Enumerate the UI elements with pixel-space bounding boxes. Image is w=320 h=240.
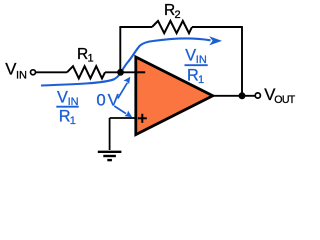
op-amp inverting input minus symbol	[137, 71, 145, 73]
node: inverting input junction dot	[117, 69, 124, 76]
wire: feedback vertical left	[119, 27, 121, 72]
annotation: 0 V text	[96, 91, 119, 110]
resistor R2	[152, 21, 192, 33]
annotation: blue fraction VIN/R1 (right)	[185, 46, 208, 86]
annotation: blue fraction VIN/R1 (left)	[56, 88, 78, 127]
annotation: arrow 0V to non-inverting input	[114, 106, 126, 114]
annotation: blue current arrowhead	[209, 36, 222, 45]
label R1	[77, 46, 94, 65]
annotation: arrow 0V to inverting input	[118, 83, 128, 99]
annotation: blue current flow curve with arrow	[41, 38, 211, 85]
svg-text:2: 2	[175, 9, 181, 21]
wire: feedback top right segment	[192, 26, 242, 28]
wire: input terminal to R1	[36, 71, 67, 73]
svg-text:OUT: OUT	[274, 94, 295, 106]
wire: feedback vertical right	[241, 26, 243, 96]
label VIN	[5, 59, 27, 81]
svg-text:IN: IN	[16, 69, 27, 81]
svg-text:V: V	[57, 88, 68, 106]
wire: non-inverting input down to ground	[109, 118, 111, 150]
op-amp non-inverting input plus symbol	[138, 114, 147, 123]
wire: feedback top left segment	[119, 26, 152, 28]
op-amp U1	[136, 57, 213, 135]
svg-text:1: 1	[70, 115, 76, 127]
label R2	[164, 2, 181, 21]
svg-text:V: V	[108, 91, 120, 110]
ground	[98, 152, 122, 160]
wire: non-inverting input horizontal	[110, 117, 137, 119]
wire: R1 to op-amp inverting input	[105, 71, 137, 73]
node: output junction dot	[239, 92, 246, 99]
wire: op-amp output	[213, 95, 255, 97]
svg-text:R: R	[187, 66, 199, 84]
svg-text:1: 1	[198, 74, 204, 86]
label VOUT	[264, 85, 296, 106]
svg-text:V: V	[185, 46, 196, 64]
svg-text:0: 0	[96, 91, 105, 110]
svg-text:IN: IN	[196, 54, 207, 66]
input terminal (open circle)	[31, 70, 36, 75]
resistor R1	[67, 66, 105, 78]
output terminal (open circle)	[255, 93, 260, 98]
svg-text:R: R	[59, 107, 71, 125]
svg-text:1: 1	[88, 53, 94, 65]
